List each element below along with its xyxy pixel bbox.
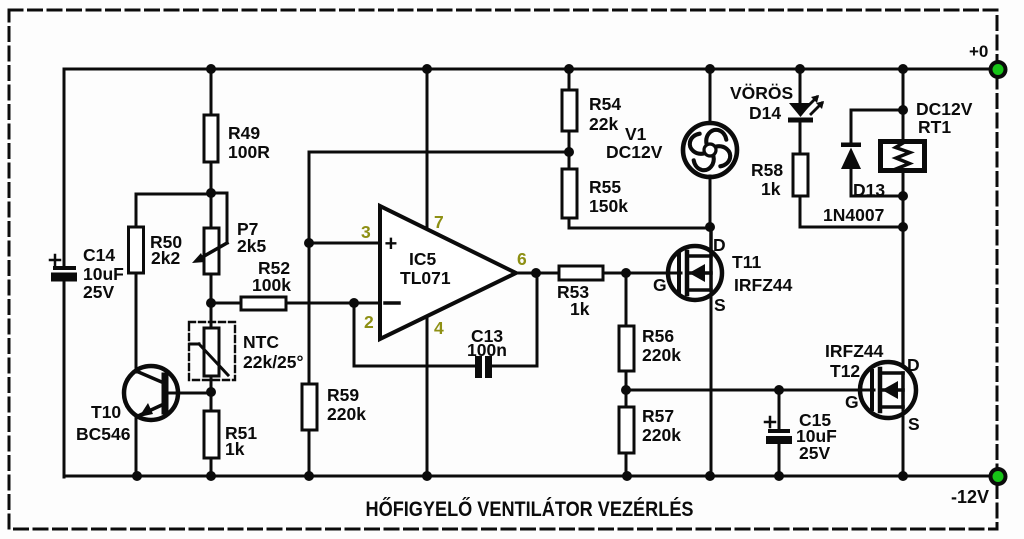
node NTC/R51/base [206,387,216,397]
svg-text:22k: 22k [589,114,618,134]
node D13 bottom [898,191,908,201]
svg-text:D13: D13 [853,180,885,200]
wire R49 branch [210,69,213,115]
node top rail / R54 [564,64,574,74]
svg-text:25V: 25V [83,282,114,302]
node pin3 [304,238,314,248]
diode D13 1N4007 [823,110,903,225]
node pin6/C13 [531,268,541,278]
svg-text:R49: R49 [228,123,260,143]
svg-text:1k: 1k [225,439,245,459]
potentiometer P7 [192,193,266,274]
svg-text:TL071: TL071 [400,268,451,288]
svg-text:S: S [908,414,920,434]
relay RT1 [881,69,973,366]
node bottom rail / R57 [622,471,632,481]
node pin2 [349,298,359,308]
svg-text:10uF: 10uF [83,264,124,284]
svg-text:DC12V: DC12V [916,99,973,119]
node relay top branch [898,105,908,115]
wire to R50 [136,194,211,227]
svg-text:2k5: 2k5 [237,236,266,256]
svg-text:2k2: 2k2 [151,248,180,268]
wire P7 to node2 [210,274,213,303]
fan V1 [606,69,737,227]
node bottom rail / C15 [774,471,784,481]
wire divider to T12 gate [626,389,874,392]
node top rail / relay RT1 [898,64,908,74]
wire bottom rail -12V [64,475,993,478]
thermistor NTC [189,303,304,380]
node C15 [774,385,784,395]
svg-text:1N4007: 1N4007 [823,205,884,225]
svg-text:BC546: BC546 [76,424,131,444]
svg-text:100R: 100R [228,142,270,162]
svg-text:DC12V: DC12V [606,142,663,162]
capacitor C15 [765,390,837,476]
svg-text:1k: 1k [761,179,781,199]
svg-text:22k/25°: 22k/25° [243,352,304,372]
wire top rail +0 [64,68,993,71]
node P7/R52/NTC [206,298,216,308]
svg-text:RT1: RT1 [918,117,951,137]
svg-text:T12: T12 [830,361,860,381]
node fan/T11 drain [705,222,715,232]
svg-text:3: 3 [361,222,371,242]
capacitor C14 [50,245,124,302]
resistor R56 [619,273,681,390]
svg-text:100k: 100k [252,275,291,295]
svg-text:R55: R55 [589,177,621,197]
svg-text:IC5: IC5 [409,249,437,269]
wire pin6 out [516,272,559,275]
resistor R55 [562,169,710,228]
svg-text:VÖRÖS: VÖRÖS [730,83,793,103]
wire NTC to base node [210,376,213,392]
svg-text:220k: 220k [642,345,681,365]
node R54/R55 [564,147,574,157]
node R56/R57/gate T12 [621,385,631,395]
resistor R57 [619,390,681,476]
svg-text:HŐFIGYELŐ VENTILÁTOR VEZÉRLÉS: HŐFIGYELŐ VENTILÁTOR VEZÉRLÉS [366,498,694,521]
node bottom rail / R59 [304,471,314,481]
svg-text:IRFZ44: IRFZ44 [734,275,793,295]
node top rail / pin7 [422,64,432,74]
resistor R51 [204,411,257,459]
resistor R52 [211,258,380,310]
node R49/P7/R50 [206,188,216,198]
svg-text:-12V: -12V [951,487,989,507]
svg-text:150k: 150k [589,196,628,216]
node top rail / R49 [206,64,216,74]
svg-text:+0: +0 [969,42,988,61]
wire left rail [63,69,66,266]
node bottom rail / R51 [206,471,216,481]
svg-text:7: 7 [434,212,444,232]
node bottom rail / T12 source [898,471,908,481]
svg-text:R58: R58 [751,160,783,180]
resistor R49 [204,115,270,162]
node R58 bottom [898,222,908,232]
svg-text:2: 2 [364,312,374,332]
node bottom rail / pin4 [422,471,432,481]
svg-text:C14: C14 [83,245,115,265]
svg-text:G: G [845,392,859,412]
transistor T10 [76,273,211,476]
svg-text:6: 6 [517,249,527,269]
terminal -12V [951,467,1008,507]
svg-text:220k: 220k [642,425,681,445]
svg-text:220k: 220k [327,404,366,424]
resistor R54 [562,69,621,169]
svg-text:IRFZ44: IRFZ44 [825,341,884,361]
resistor R58 [751,154,903,227]
svg-text:R54: R54 [589,94,621,114]
svg-text:T11: T11 [732,252,761,272]
wire node to R51 [210,392,213,411]
node bottom rail / T11 source [705,471,715,481]
svg-text:100n: 100n [467,340,507,360]
node R53/gate/R56 [621,268,631,278]
led D14 VOROS [730,69,824,154]
op-amp IC5 [309,69,569,476]
wire R51 to rail [210,458,213,476]
capacitor C13 feedback [354,273,537,378]
svg-text:V1: V1 [625,124,647,144]
node top rail / fan V1 [705,64,715,74]
svg-text:R59: R59 [327,385,359,405]
wire R49 to node [210,162,213,193]
svg-text:1k: 1k [570,299,590,319]
svg-text:D14: D14 [749,103,781,123]
svg-text:G: G [653,275,667,295]
mosfet T12 IRFZ44 [825,341,920,476]
svg-text:NTC: NTC [243,332,279,352]
node top rail / LED D14 [795,64,805,74]
svg-text:S: S [714,295,726,315]
svg-text:4: 4 [434,318,444,338]
resistor R50 [129,227,183,273]
svg-text:25V: 25V [799,443,830,463]
terminal +0 [969,42,1008,79]
svg-text:D: D [713,235,726,255]
svg-text:R57: R57 [642,406,674,426]
node bottom rail / T10 emitter [132,471,142,481]
svg-text:+: + [385,231,398,256]
svg-text:T10: T10 [91,402,121,422]
mosfet T11 IRFZ44 [653,227,793,476]
resistor R53 [557,266,681,319]
svg-text:R56: R56 [642,326,674,346]
svg-text:D: D [907,355,920,375]
resistor R59 [302,243,366,476]
